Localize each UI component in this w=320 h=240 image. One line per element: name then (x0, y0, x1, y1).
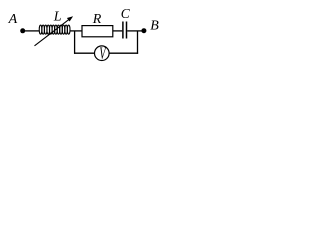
voltmeter loop bottom-right wire (109, 52, 138, 54)
wire capacitor to node B (127, 30, 142, 32)
capacitor C right plate (126, 22, 128, 39)
voltmeter loop bottom-left wire (74, 52, 95, 54)
wire A to inductor (24, 30, 40, 32)
wire resistor to capacitor (113, 30, 123, 32)
inductor L coil (39, 25, 70, 34)
variable-inductor arrow (35, 16, 74, 46)
svg-text:V: V (99, 45, 106, 63)
resistor R body (82, 26, 113, 37)
node A terminal dot (20, 28, 25, 33)
svg-text:B: B (150, 18, 159, 33)
capacitor C left plate (122, 22, 124, 39)
svg-text:C: C (121, 6, 131, 21)
svg-text:A: A (8, 12, 18, 27)
wire inductor to resistor (70, 30, 83, 32)
voltmeter V body (95, 46, 110, 61)
node B terminal dot (141, 28, 146, 33)
svg-text:R: R (92, 12, 102, 27)
wire: right branch down to voltmeter loop (137, 31, 139, 54)
wire: left branch down to voltmeter loop (74, 31, 76, 54)
svg-text:L: L (53, 9, 62, 24)
